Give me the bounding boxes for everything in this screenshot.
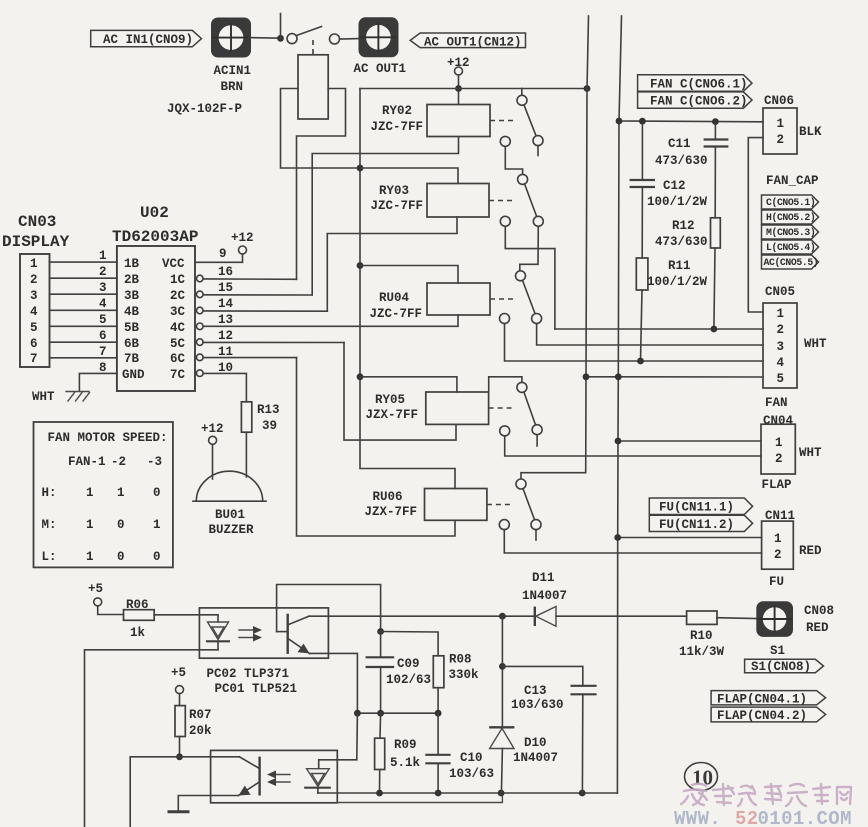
U02 output bubble 7C pin10 [197,370,204,377]
wire PC02 emitter to y713 node [310,653,358,713]
svg-text:C10: C10 [460,751,483,765]
net label AC(CNO5.5) arrow [762,255,819,269]
wire CN11.2 from RU06 NO [504,530,761,553]
node bus B CN04.1 [615,438,622,445]
wire PC02 base loop to C09 node [277,585,381,632]
svg-text:CN03: CN03 [18,213,56,231]
svg-text:14: 14 [218,297,234,311]
svg-text:7: 7 [99,345,107,359]
wire RY03 coil bottom to driver 3C [327,217,457,311]
wire CN04.1 from bus B [618,440,761,442]
resistor R13 [241,402,279,433]
U02 output bubble 1C pin16 [197,275,204,282]
svg-text:39: 39 [262,419,277,433]
phototransistor PC01 [180,757,260,796]
svg-text:M(CNO5.3): M(CNO5.3) [766,227,815,238]
svg-text:16: 16 [218,265,233,279]
relay RU04 coil [370,283,491,321]
node +12 feed [455,85,462,92]
switch RU06 [499,479,541,540]
net label AC IN1(CNO9) arrow [91,30,202,47]
svg-text:JZC-7FF: JZC-7FF [371,199,424,213]
node C09 top tee [377,628,384,635]
svg-text:1B: 1B [124,257,140,271]
svg-text:FAN C(CNO6.1): FAN C(CNO6.1) [650,78,748,92]
resistor R08 [433,653,479,714]
svg-text:JZX-7FF: JZX-7FF [366,408,419,422]
svg-text:330k: 330k [449,668,480,682]
svg-text:7B: 7B [124,352,140,366]
wire 6C row11 [203,357,296,359]
svg-text:U02: U02 [140,204,169,222]
wire CN03.6 to U02 6B [50,341,117,343]
node R09 bottom [376,790,383,797]
svg-text:2B: 2B [124,273,140,287]
svg-text:12: 12 [218,329,233,343]
power +5 R07 [171,666,186,694]
svg-text:BLK: BLK [799,125,822,139]
wire R10 to CN08 [717,617,756,620]
net label FU(CN11.2) arrow [649,515,752,532]
connector icon AC OUT1 [354,17,407,76]
svg-text:L(CNO5.4): L(CNO5.4) [766,242,815,253]
svg-text:RU06: RU06 [373,490,403,504]
svg-text:C13: C13 [524,684,547,698]
connector icon CN08 [756,601,834,658]
node bus B CN06 [616,118,623,125]
wire CN03.2 to U02 2B [50,277,117,279]
svg-text:2: 2 [777,323,785,337]
node bus B CN05.5 [615,373,622,380]
node R07 bottom [176,753,183,760]
switch RY02 [500,95,543,155]
svg-text:7: 7 [30,352,38,366]
net label H(CNO5.2) arrow [762,210,819,224]
svg-text:JZX-7FF: JZX-7FF [365,505,418,519]
svg-text:AC OUT1(CN12): AC OUT1(CN12) [424,36,522,50]
capacitor C09 [366,632,431,714]
wire JQX coil right to driver 1C [297,89,346,280]
pin numbers U02 right [218,247,234,375]
node bus RU04 feed [357,262,364,269]
wire stub up from ACIN1 node [280,14,282,39]
svg-text:FU(CN11.1): FU(CN11.1) [659,501,734,515]
svg-text:102/63: 102/63 [386,673,431,687]
wire 7C row10 to R13 [203,373,246,401]
svg-text:+5: +5 [88,582,103,596]
switch RU04 [500,271,542,324]
power +12 at U02 VCC pin9 [231,231,254,254]
wire RY05 coil bottom to driver 5C (row12) [344,343,456,441]
light arrows PC01 [267,771,290,787]
light arrows PC02 [239,626,262,642]
relay JQX-102F-P coil [167,55,328,119]
phototransistor PC02 [277,614,310,654]
connector CN06 [763,94,822,154]
wire +5 to R06 [98,606,124,615]
net label FLAP(CN04.1) arrow [711,691,826,707]
svg-text:D10: D10 [524,736,547,750]
wire D11 to R10 [556,615,687,617]
wire long vertical bus B x618.5 [617,16,621,793]
resistor R06 [124,598,155,640]
svg-text:R10: R10 [690,629,713,643]
wire CN05.3 from RU04 NC [537,324,763,346]
watermark www.520101.com [674,808,852,827]
wire +12 vertical bus [360,89,455,489]
net label S1(CN08) arrow [745,659,824,674]
capacitor C10 [425,713,494,793]
connector CN03 DISPLAY [2,213,70,367]
capacitor C13 [511,684,597,793]
svg-text:+12: +12 [231,231,254,245]
svg-text:100/1/2W: 100/1/2W [647,275,708,289]
node R11 bottom [637,358,644,365]
svg-text:1: 1 [777,307,785,321]
svg-text:FAN_CAP: FAN_CAP [766,174,819,188]
svg-text:3: 3 [30,289,38,303]
wire RY02 NO to RY03 common [505,146,522,174]
svg-text:3: 3 [777,340,785,354]
wire R13 to buzzer [245,432,247,477]
node y88 right [584,85,591,92]
node C13 bottom [579,790,586,797]
svg-text:1: 1 [86,486,94,500]
wire U02 GND pin8 [79,373,117,391]
wire RY03 NO to CN05 line [505,226,555,329]
svg-text:PC01 TLP521: PC01 TLP521 [215,682,298,696]
svg-text:3: 3 [99,281,107,295]
node C13 tee [499,663,506,670]
svg-text:5: 5 [777,372,785,386]
svg-text:PC02 TLP371: PC02 TLP371 [207,667,290,681]
svg-text:S1(CNO8): S1(CNO8) [751,660,811,674]
svg-text:11k/3W: 11k/3W [679,645,725,659]
svg-text:GND: GND [122,368,145,382]
resistor R11 [636,258,707,361]
svg-text:CN05: CN05 [765,285,795,299]
mechanical link RU04 (dashed) [490,298,516,300]
pin numbers U02 left [99,249,107,375]
svg-text:52: 52 [735,808,759,827]
svg-text:1: 1 [775,436,783,450]
svg-text:BRN: BRN [221,80,244,94]
svg-text:R13: R13 [257,403,280,417]
svg-text:AC IN1(CNO9): AC IN1(CNO9) [103,33,193,47]
svg-text:RED: RED [806,621,829,635]
svg-text:7C: 7C [170,368,186,382]
svg-text:4: 4 [30,305,38,319]
svg-text:1: 1 [777,117,785,131]
wire R07 node to left drop [130,757,179,827]
wire RY05 common link to coil corner [489,377,522,392]
svg-text:H:: H: [42,486,57,500]
net label AC OUT1(CN12) arrow [410,33,525,50]
svg-text:C(CNO5.1): C(CNO5.1) [766,197,815,208]
svg-text:103/63: 103/63 [449,767,494,781]
node y713 left [354,710,361,717]
wire CN11.1 from bus B [618,537,762,539]
connector CN05 [763,285,827,410]
relay RY02 coil [371,104,491,137]
svg-text:JZC-7FF: JZC-7FF [371,120,424,134]
wire PC02 collector line to D11 [309,615,535,617]
svg-text:2C: 2C [170,289,186,303]
svg-text:FAN MOTOR SPEED:: FAN MOTOR SPEED: [48,431,168,445]
connector CN04 [761,414,822,492]
net label FLAP(CN04.2) arrow [711,707,826,723]
svg-text:10: 10 [692,766,713,790]
svg-text:BU01: BU01 [215,508,245,522]
U02 output bubble 5C pin12 [197,339,204,346]
svg-text:2: 2 [99,265,107,279]
U02 output bubble 3C pin14 [197,307,204,314]
svg-text:5B: 5B [124,321,140,335]
svg-text:RY05: RY05 [375,393,405,407]
svg-text:D11: D11 [532,571,555,585]
node bus B CN11.1 [614,534,621,541]
wire +12 to RY03 coil top [360,168,458,184]
diode D10 1N4007 [489,727,558,793]
svg-text:4: 4 [777,356,785,370]
svg-text:4: 4 [99,297,107,311]
wire CN03.4 to U02 4B [50,309,117,311]
svg-text:3C: 3C [170,305,186,319]
switch AC mains contact [287,27,340,45]
net label FU(CN11.1) arrow [649,498,752,515]
IC U02 TD62003AP [112,204,198,391]
U02 output bubble 4C pin13 [197,323,204,330]
svg-text:FU(CN11.2): FU(CN11.2) [659,518,734,532]
wire +12 to buzzer [212,444,214,479]
svg-text:5C: 5C [170,337,186,351]
svg-text:0: 0 [153,550,161,564]
wire CN03.1 to U02 1B [50,261,117,263]
svg-text:CN06: CN06 [764,94,794,108]
ground PC01 [168,810,190,813]
svg-text:WHT: WHT [804,337,827,351]
wire PC01 box bottom extension [337,793,502,803]
capacitor C12 [630,124,708,258]
svg-text:R12: R12 [672,219,695,233]
svg-text:L:: L: [42,550,57,564]
svg-text:BUZZER: BUZZER [209,523,255,537]
svg-text:RU04: RU04 [379,291,410,305]
wire 2C row15 [203,294,312,296]
svg-text:1: 1 [774,532,782,546]
svg-text:ACIN1: ACIN1 [214,64,252,78]
wire CN05.2 from RY03 NO [555,328,763,330]
svg-text:100/1/2W: 100/1/2W [647,195,708,209]
svg-text:C12: C12 [663,179,686,193]
resistor R09 [375,713,421,793]
svg-text:20k: 20k [189,724,212,738]
wire JQX coil left to +12 rail [281,89,361,169]
svg-text:FLAP: FLAP [762,478,792,492]
svg-text:0101.COM: 0101.COM [758,808,852,827]
wire +12 to RY05 coil top [360,377,457,392]
svg-text:0: 0 [153,486,161,500]
connector icon ACIN1 [211,18,251,95]
svg-text:6: 6 [99,329,107,343]
svg-text:+12: +12 [201,422,224,436]
svg-text:5: 5 [30,321,38,335]
wire C09 node to R08 [381,632,439,656]
net label L(CNO5.4) arrow [762,240,819,254]
wire y713 tie line [357,712,438,714]
wire CN03.3 to U02 3B [50,293,117,295]
svg-text:FAN-1: FAN-1 [68,455,106,469]
svg-text:AC(CNO5.5): AC(CNO5.5) [764,257,819,268]
svg-text:FLAP(CN04.2): FLAP(CN04.2) [717,709,807,723]
svg-text:13: 13 [218,313,233,327]
wire CN04.2 from RY05 NO [505,436,761,456]
svg-text:6: 6 [30,337,38,351]
svg-text:FU: FU [769,575,784,589]
wire PC02 LED cathode to left rail [85,650,219,827]
svg-text:1k: 1k [130,626,146,640]
node y713 right [435,710,442,717]
power +5 R06 [88,582,103,606]
wire CN06.2 to CN05.1 [748,138,763,312]
node C10 bottom [435,790,442,797]
U02 output bubble 6C pin11 [197,354,204,361]
svg-text:473/630: 473/630 [655,235,708,249]
wire 5C row12 [203,341,344,343]
wire ACIN1 to switch node [249,37,281,40]
svg-text:5: 5 [99,313,107,327]
svg-text:1: 1 [99,249,107,263]
svg-text:0: 0 [117,518,125,532]
optocoupler PC02 TLP371 [199,608,328,681]
mechanical link RY02 (dashed) [490,120,516,122]
net label FAN C(CNO6.2) arrow [638,92,752,109]
wire 1C row16 [203,278,296,280]
svg-text:WWW.: WWW. [674,808,721,827]
node D10 bottom [498,790,505,797]
svg-text:WHT: WHT [799,446,822,460]
svg-text:CN04: CN04 [763,414,794,428]
svg-text:CN08: CN08 [804,604,834,618]
svg-text:FLAP(CN04.1): FLAP(CN04.1) [717,693,807,707]
svg-text:FAN C(CNO6.2): FAN C(CNO6.2) [650,95,748,109]
wire PC01 LED feed from y713 node [319,713,358,769]
svg-text:-3: -3 [147,455,162,469]
node bus RY05 feed [357,373,364,380]
wire VCC pin9 [195,254,243,262]
svg-text:9: 9 [219,247,227,261]
net label FAN C(CNO6.1) arrow [638,75,752,92]
node y713 mid [377,710,384,717]
svg-text:S1: S1 [770,644,785,658]
LED of PC01 [304,769,331,793]
svg-text:2: 2 [774,548,782,562]
wire CN06.1 line y121 [619,120,763,123]
svg-text:TD62003AP: TD62003AP [112,228,198,246]
svg-text:1C: 1C [170,273,186,287]
switch RY05 [500,382,542,446]
wire long vertical bus A x587 [521,16,589,479]
svg-text:-2: -2 [111,455,126,469]
net label C(CNO5.1) arrow [762,195,819,209]
mechanical link RY03 (dashed) [489,200,515,202]
svg-text:4C: 4C [170,321,186,335]
resistor R12 [655,218,720,329]
wire 3C row14 [203,310,327,312]
svg-text:1N4007: 1N4007 [513,751,558,765]
svg-text:2: 2 [30,273,38,287]
wire bottom rail y793 [318,792,618,794]
node R12 bottom [711,326,718,333]
net label M(CNO5.3) arrow [762,225,819,239]
wire D11 node down to D10 [501,616,503,727]
svg-text:JZC-7FF: JZC-7FF [370,307,423,321]
wire CN03.7 to U02 7B [50,357,117,359]
svg-text:M:: M: [42,518,57,532]
U02 output bubble 2C pin15 [197,291,204,298]
svg-text:RY03: RY03 [379,184,409,198]
svg-text:FAN: FAN [765,396,788,410]
wire CN03.5 to U02 5B [50,325,117,327]
svg-text:4B: 4B [124,305,140,319]
svg-text:JQX-102F-P: JQX-102F-P [167,102,242,116]
relay RY03 coil [371,184,490,218]
mechanical link relay JQX to switch (dashed) [312,40,314,55]
svg-text:AC OUT1: AC OUT1 [354,62,407,76]
table FAN MOTOR SPEED [34,422,173,567]
svg-text:103/630: 103/630 [511,698,564,712]
svg-text:2: 2 [777,133,785,147]
node D11 left [499,613,506,620]
ground U02 GND [66,392,90,402]
svg-text:1: 1 [30,257,38,271]
relay RY05 coil [366,392,489,424]
node C12 top [639,118,646,125]
svg-text:R09: R09 [394,738,417,752]
node ACIN1 junction [277,35,284,42]
svg-text:15: 15 [218,281,233,295]
wire RY02 coil bottom to driver 2C [312,137,458,296]
svg-text:C11: C11 [668,137,691,151]
node C11 top [712,118,719,125]
node bus A CN05.5 [583,373,590,380]
svg-text:1N4007: 1N4007 [522,589,567,603]
svg-text:3B: 3B [124,289,140,303]
wire +12 into RY02 coil [458,75,460,105]
relay RU06 coil [365,489,487,521]
power +12 top [447,56,470,75]
svg-text:RY02: RY02 [382,104,412,118]
wire switch to AC OUT1 [340,38,359,40]
connector CN11 [762,509,822,589]
svg-text:R08: R08 [449,653,472,667]
svg-text:6C: 6C [170,352,186,366]
svg-text:0: 0 [117,550,125,564]
capacitor C11 [655,124,728,218]
buzzer BU01 [193,471,266,537]
mechanical link RU06 (dashed) [487,504,512,506]
svg-text:473/630: 473/630 [655,154,708,168]
svg-text:1: 1 [86,550,94,564]
mechanical link RY05 (dashed) [489,407,514,409]
wire RU06 coil bottom to driver 6C (row11) [297,358,456,536]
power +12 buzzer [201,422,224,444]
svg-text:RED: RED [799,544,822,558]
optocoupler PC01 TLP521 [211,682,338,803]
wire R06 to PC02 LED [154,614,218,616]
svg-text:1: 1 [86,518,94,532]
wire PC01 emitter to ground [178,796,238,812]
